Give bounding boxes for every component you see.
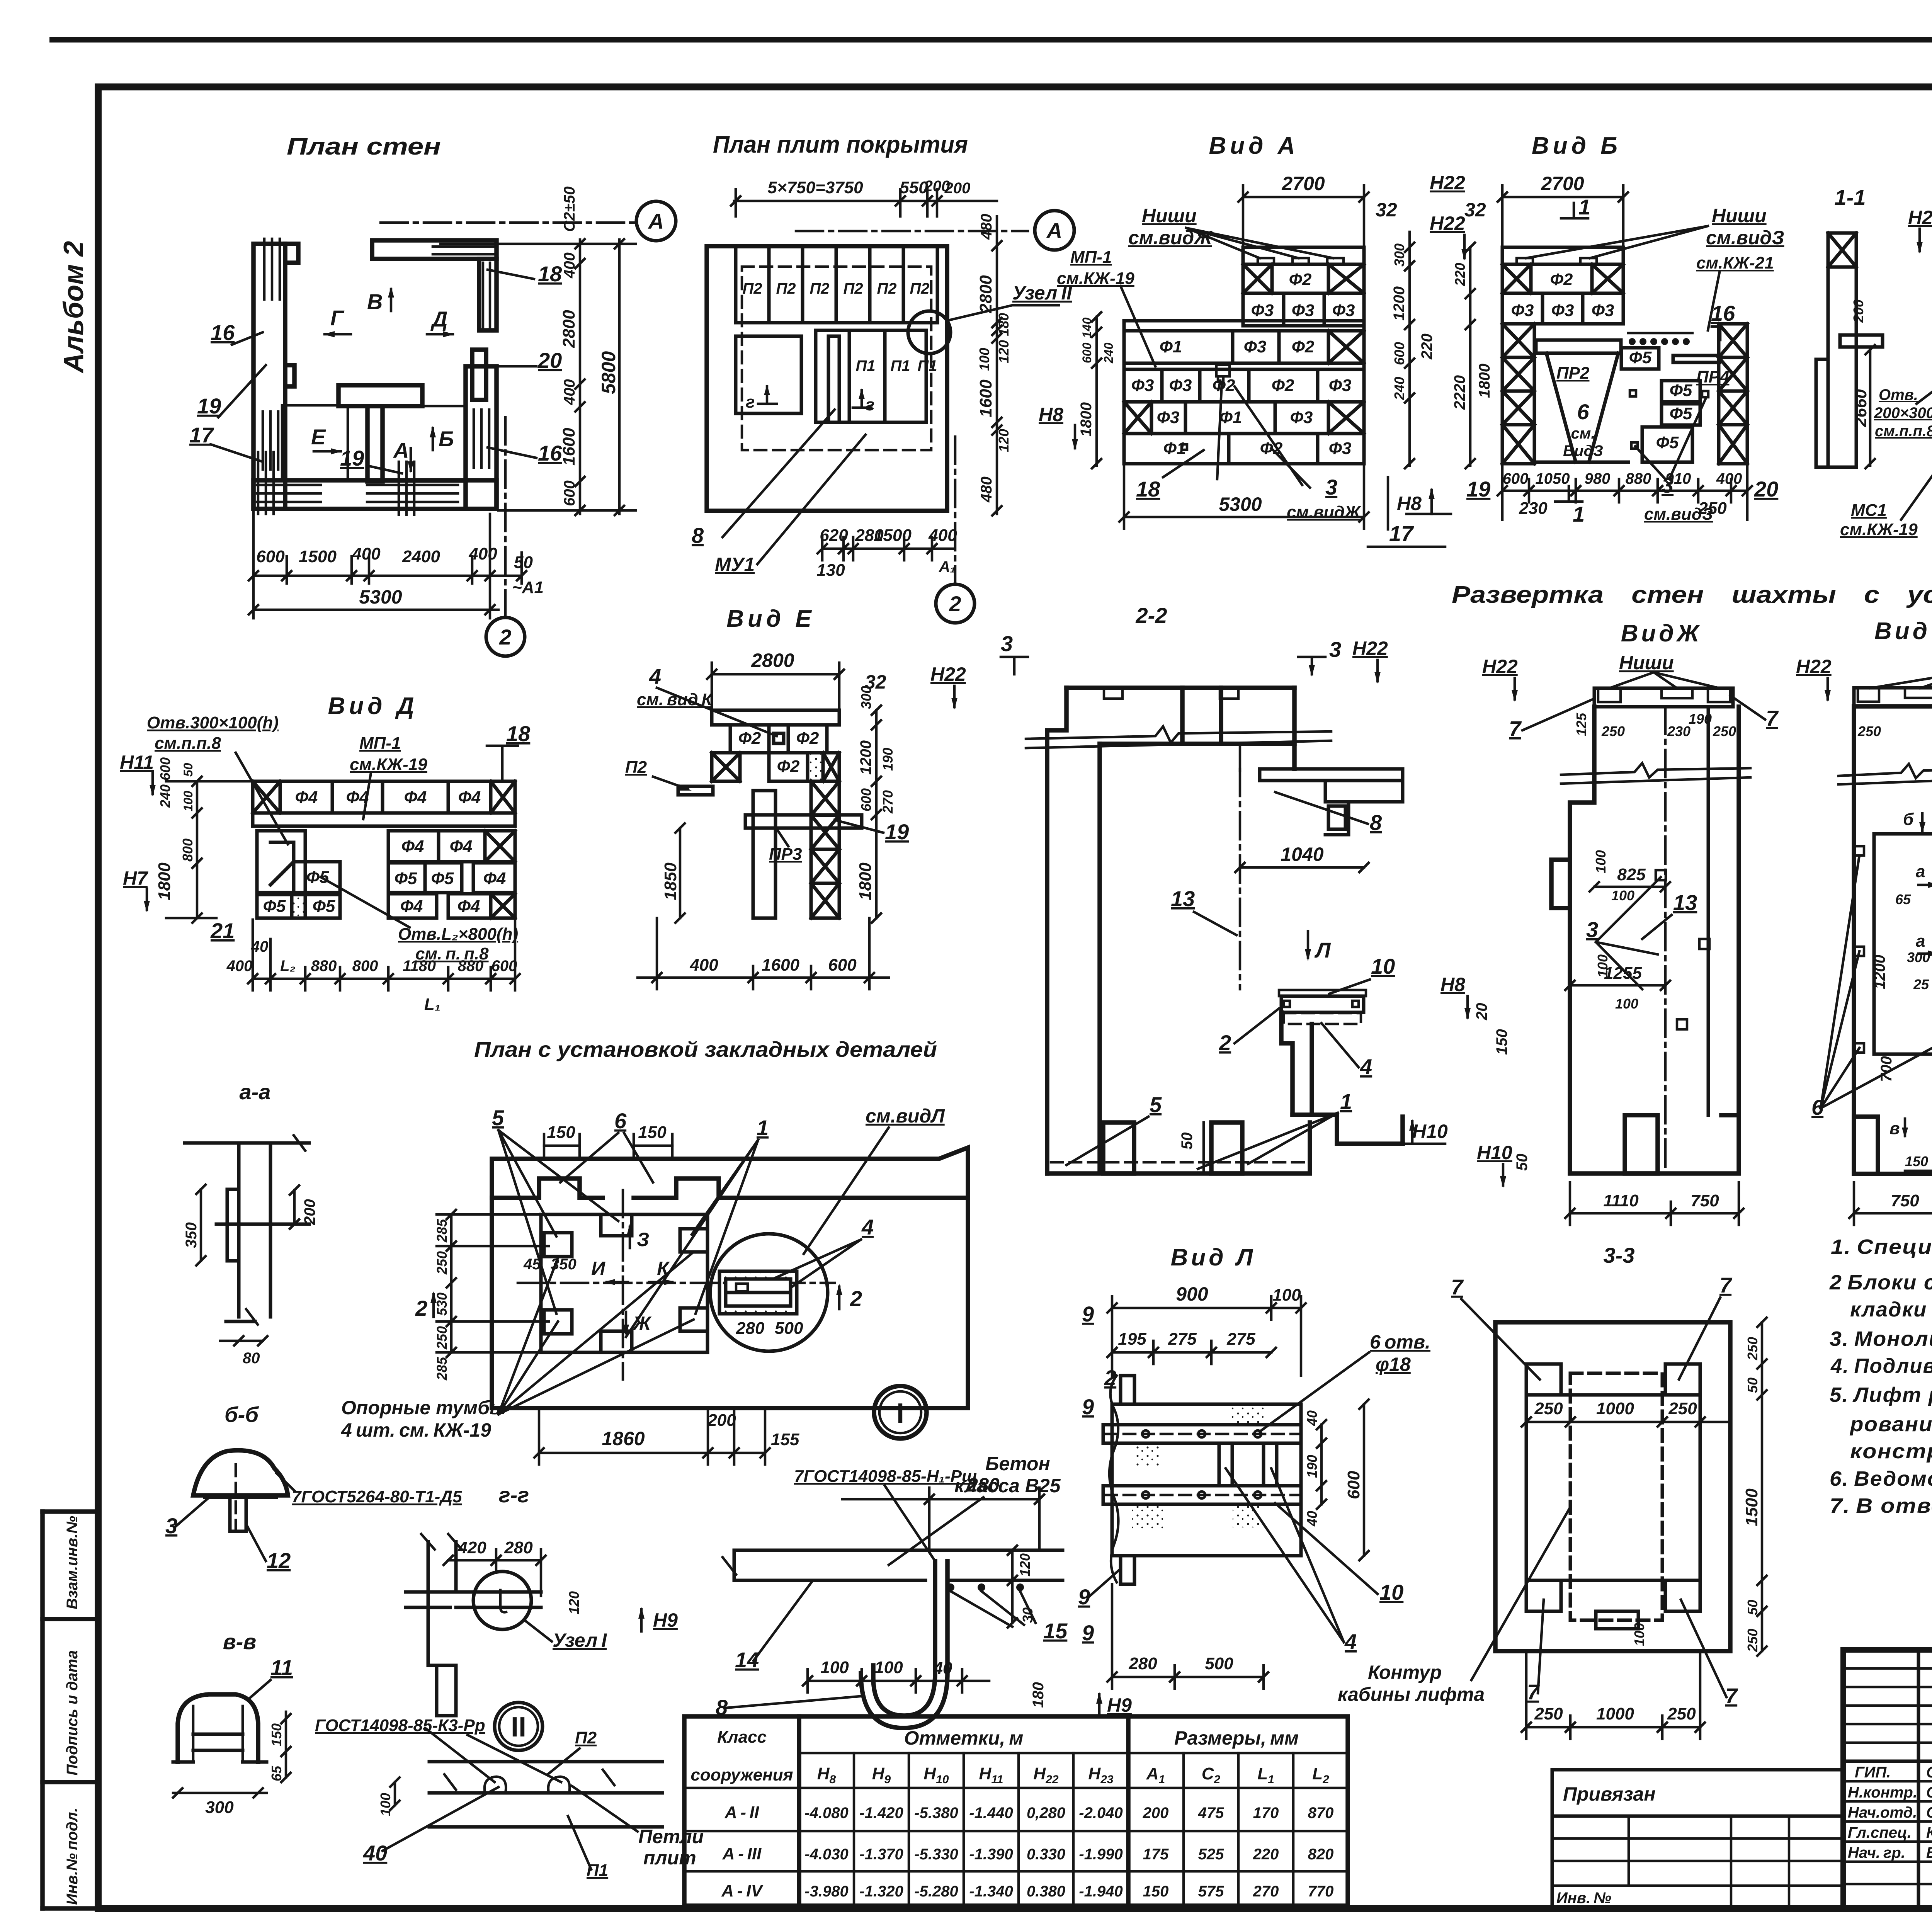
svg-text:50: 50 (1745, 1378, 1760, 1393)
svg-text:Васильева: Васильева (1926, 1844, 1932, 1861)
svg-text:1600: 1600 (560, 428, 578, 466)
bottom dims 250 1000 250 (1522, 1654, 1705, 1739)
svg-text:100: 100 (1272, 1286, 1301, 1304)
svg-text:г: г (746, 393, 755, 412)
wall hatch bundles (257, 239, 495, 515)
rebar dots and bottom bars (947, 1583, 1024, 1591)
svg-text:9: 9 (1082, 1621, 1094, 1645)
вид Д: lower right blocks (388, 831, 515, 918)
svg-text:4: 4 (1360, 1054, 1372, 1079)
svg-text:а: а (1916, 932, 1925, 951)
svg-text:3: 3 (1586, 917, 1598, 942)
svg-text:32: 32 (1376, 199, 1397, 221)
svg-text:200×300(h): 200×300(h) (1874, 405, 1932, 422)
svg-text:П2: П2 (742, 280, 762, 297)
svg-text:МУ1: МУ1 (715, 554, 755, 575)
svg-text:4: 4 (649, 664, 661, 689)
svg-text:см.видЖ: см.видЖ (1128, 227, 1213, 248)
svg-text:13: 13 (1673, 890, 1697, 915)
svg-text:7: 7 (1725, 1684, 1738, 1708)
svg-text:1000: 1000 (1596, 1399, 1634, 1418)
план плит: outer square (707, 246, 947, 511)
вид Б: lintel ПР2 and door funnel (1536, 340, 1621, 353)
svg-text:20: 20 (1754, 477, 1778, 501)
svg-text:125: 125 (1573, 713, 1589, 736)
svg-text:МП-1: МП-1 (359, 734, 401, 753)
svg-text:ГОСТ14098-85-К3-Рр: ГОСТ14098-85-К3-Рр (315, 1716, 485, 1735)
svg-text:П1: П1 (890, 357, 910, 374)
svg-text:100: 100 (1593, 850, 1609, 873)
svg-text:150: 150 (547, 1123, 575, 1142)
svg-text:170: 170 (1253, 1804, 1279, 1821)
план стен: top-right L wall (372, 240, 497, 259)
svg-text:Ф4: Ф4 (401, 837, 424, 856)
svg-text:Ф4: Ф4 (404, 788, 427, 807)
svg-text:1. Спецификацию см. на лист: 1. Спецификацию см. на листах КЖ-19, КЖ-… (1831, 1235, 1932, 1259)
svg-text:2 Блоки стен укладывать на: 2 Блоки стен укладывать на цементно-песч… (1829, 1271, 1932, 1294)
svg-text:г: г (866, 395, 874, 414)
svg-text:50: 50 (1179, 1133, 1196, 1150)
svg-text:а-а: а-а (240, 1080, 271, 1104)
svg-text:Ф5: Ф5 (313, 897, 335, 916)
svg-text:880: 880 (311, 957, 337, 975)
вид А right chain (1405, 232, 1414, 468)
svg-text:530: 530 (434, 1293, 450, 1316)
axis circle 2 bottom (954, 437, 957, 583)
svg-text:Ф3: Ф3 (1292, 301, 1315, 320)
svg-text:см.п.п.8: см.п.п.8 (155, 734, 221, 753)
svg-text:А: А (648, 209, 664, 233)
svg-text:А - III: А - III (722, 1844, 762, 1863)
svg-text:100: 100 (976, 348, 992, 371)
svg-text:Ф2: Ф2 (1272, 376, 1294, 395)
svg-text:7: 7 (1766, 706, 1779, 730)
svg-text:Вид А: Вид А (1209, 133, 1299, 159)
svg-text:Ф3: Ф3 (1251, 301, 1274, 320)
svg-text:-1.320: -1.320 (859, 1883, 903, 1900)
svg-text:Н8: Н8 (1440, 974, 1465, 995)
svg-text:200: 200 (707, 1411, 736, 1430)
svg-text:Ф2: Ф2 (796, 729, 819, 748)
план плит: room (736, 336, 801, 413)
svg-text:500: 500 (1205, 1654, 1233, 1673)
svg-text:40: 40 (1304, 1511, 1320, 1527)
svg-text:5800: 5800 (598, 351, 619, 394)
svg-text:15: 15 (1043, 1619, 1068, 1643)
svg-text:-4.030: -4.030 (804, 1846, 848, 1863)
svg-text:А: А (1046, 218, 1062, 243)
svg-text:19: 19 (1466, 477, 1490, 501)
svg-text:130: 130 (816, 561, 845, 580)
dims 420 280 (444, 1549, 546, 1596)
svg-text:Л: Л (1314, 938, 1331, 962)
band (734, 1550, 1063, 1580)
план стен: left wall (253, 244, 285, 509)
svg-text:Д: Д (430, 307, 447, 331)
svg-text:1110: 1110 (1603, 1191, 1639, 1210)
svg-text:800: 800 (352, 957, 378, 975)
svg-text:5. Лифт разработан в соответ: 5. Лифт разработан в соответствии с „ Ал… (1830, 1383, 1932, 1406)
svg-text:120: 120 (1017, 1553, 1033, 1577)
svg-text:6: 6 (614, 1109, 627, 1133)
svg-text:150: 150 (1905, 1153, 1928, 1169)
svg-text:Вид Б: Вид Б (1532, 133, 1621, 159)
svg-text:Развертка стен шахты с уст: Развертка стен шахты с установкой заклад… (1452, 582, 1932, 608)
узел II circle (495, 1702, 543, 1750)
svg-text:Ф4: Ф4 (458, 788, 481, 807)
svg-text:3: 3 (1001, 631, 1013, 656)
svg-text:155: 155 (771, 1430, 799, 1449)
svg-text:2-2: 2-2 (1136, 603, 1167, 628)
dashed inner square (cabin contour) (1570, 1373, 1662, 1620)
dims 250 1000 250 middle (1522, 1417, 1730, 1427)
svg-text:ВидЖ: ВидЖ (1621, 620, 1702, 647)
svg-text:Гл.спец.: Гл.спец. (1848, 1824, 1912, 1841)
top dimension 5x750=3750 550 200 200 (731, 189, 997, 216)
svg-text:Взам.инв.№: Взам.инв.№ (64, 1516, 81, 1609)
svg-text:2: 2 (415, 1296, 427, 1320)
svg-text:Н10: Н10 (1412, 1121, 1448, 1142)
svg-text:0.330: 0.330 (1027, 1846, 1065, 1863)
svg-text:16: 16 (1711, 301, 1735, 325)
svg-text:Ниши: Ниши (1712, 205, 1767, 226)
svg-text:750: 750 (1891, 1191, 1919, 1210)
svg-text:Нач. гр.: Нач. гр. (1848, 1844, 1905, 1861)
svg-text:190: 190 (1304, 1455, 1320, 1478)
svg-text:План плит покрытия: План плит покрытия (713, 131, 968, 158)
svg-text:~А1: ~А1 (512, 578, 544, 597)
план закл: outer boundary (492, 1148, 968, 1408)
svg-text:-1.390: -1.390 (969, 1846, 1013, 1863)
svg-text:Отв.L₂×800(h): Отв.L₂×800(h) (398, 925, 518, 944)
svg-text:Ф5: Ф5 (306, 868, 329, 887)
svg-text:1860: 1860 (602, 1428, 645, 1449)
svg-text:250: 250 (434, 1251, 450, 1275)
svg-text:20: 20 (537, 348, 562, 372)
svg-text:1: 1 (1340, 1089, 1352, 1114)
svg-text:-1.440: -1.440 (969, 1804, 1013, 1821)
svg-text:-1.940: -1.940 (1079, 1883, 1122, 1900)
svg-text:L₂: L₂ (280, 957, 296, 975)
svg-text:Н22: Н22 (1908, 207, 1932, 228)
svg-text:Отметки, м: Отметки, м (904, 1727, 1024, 1749)
svg-text:Ф3: Ф3 (1157, 408, 1180, 427)
svg-text:16: 16 (211, 320, 235, 345)
вид Ж: inner edge and break (1707, 707, 1710, 1115)
axis line and circle А (381, 221, 636, 224)
svg-text:525: 525 (1198, 1846, 1224, 1863)
МП-1 см.КЖ-19 label (1121, 286, 1155, 366)
svg-text:9: 9 (1082, 1395, 1094, 1419)
svg-text:Ф4: Ф4 (450, 837, 473, 856)
svg-text:А - IV: А - IV (721, 1881, 764, 1900)
план стен: T pier (338, 385, 422, 406)
svg-text:Н11: Н11 (120, 752, 154, 773)
вид А left chain (1092, 312, 1101, 468)
svg-text:плит: плит (643, 1847, 696, 1869)
svg-text:в: в (1889, 1119, 1900, 1138)
svg-text:600: 600 (828, 956, 857, 975)
svg-text:Н22: Н22 (1430, 213, 1465, 234)
svg-text:1040: 1040 (1281, 844, 1323, 865)
svg-text:З: З (637, 1229, 649, 1250)
svg-text:Ф1: Ф1 (1219, 408, 1242, 427)
svg-text:230: 230 (1667, 723, 1690, 739)
svg-text:А: А (393, 438, 409, 463)
svg-text:1000: 1000 (1596, 1704, 1634, 1723)
axis А circle top right (shared) (796, 230, 1028, 233)
svg-text:150: 150 (638, 1123, 667, 1142)
bottom dim (1849, 1182, 1932, 1225)
svg-text:Ф3: Ф3 (1244, 337, 1267, 356)
svg-text:Н8: Н8 (1397, 493, 1422, 514)
1-1: wall column (1816, 233, 1883, 467)
break lines (1838, 764, 1932, 778)
top dim 2700 (1238, 185, 1369, 247)
svg-text:120 180: 120 180 (996, 313, 1012, 363)
вид Д: top row (253, 781, 515, 813)
right chain (872, 706, 881, 923)
svg-text:Н7: Н7 (123, 867, 148, 889)
svg-text:400: 400 (226, 957, 253, 975)
svg-text:П2: П2 (575, 1728, 597, 1747)
svg-text:а: а (1916, 862, 1925, 881)
svg-text:Вид Л: Вид Л (1171, 1244, 1256, 1271)
svg-text:6. Ведомость и спецификацию: 6. Ведомость и спецификацию перемычек см… (1830, 1467, 1932, 1490)
svg-text:конструкций лифтов) ЛТ-6: конструкций лифтов) ЛТ-6 (1850, 1440, 1932, 1463)
svg-text:250: 250 (1668, 1399, 1697, 1418)
svg-text:2700: 2700 (1541, 173, 1584, 194)
2-2: upper right slab (1260, 769, 1403, 835)
svg-text:Н22: Н22 (1482, 656, 1518, 677)
sheet top rule (52, 37, 1932, 43)
svg-text:400: 400 (689, 956, 718, 975)
svg-text:150: 150 (269, 1723, 284, 1747)
1850 dim (675, 823, 685, 923)
svg-text:7ГОСТ14098-85-Н₁-Рш: 7ГОСТ14098-85-Н₁-Рш (794, 1467, 977, 1486)
svg-text:5: 5 (492, 1105, 504, 1130)
svg-text:820: 820 (1308, 1846, 1334, 1863)
svg-text:40: 40 (251, 938, 269, 955)
svg-text:600: 600 (1344, 1471, 1363, 1499)
svg-text:10: 10 (1379, 1580, 1403, 1604)
bottom dims 280 500 (1107, 1584, 1268, 1689)
svg-text:400: 400 (468, 544, 497, 563)
svg-text:-1.420: -1.420 (859, 1804, 903, 1821)
svg-text:300: 300 (205, 1798, 234, 1817)
svg-text:20: 20 (1473, 1003, 1490, 1021)
svg-text:100: 100 (1615, 996, 1638, 1012)
280 dim (842, 1488, 1044, 1550)
svg-text:П2: П2 (810, 280, 829, 297)
svg-text:220: 220 (1253, 1846, 1279, 1863)
МУ1 and 8 leaders (723, 410, 835, 537)
svg-text:2: 2 (1219, 1031, 1231, 1055)
вид Б: Ф5 blocks (1621, 348, 1659, 369)
svg-text:7: 7 (1509, 716, 1522, 741)
svg-text:см.: см. (1571, 425, 1595, 442)
svg-text:50: 50 (514, 553, 533, 572)
svg-text:400: 400 (1716, 470, 1742, 487)
вид З: main outline (1854, 706, 1932, 1174)
svg-text:ГИП.: ГИП. (1855, 1764, 1891, 1781)
svg-text:17: 17 (189, 423, 214, 447)
svg-text:600: 600 (1391, 342, 1407, 365)
2-2: bottom with feet (1047, 1122, 1310, 1173)
svg-text:Силяева: Силяева (1926, 1764, 1932, 1781)
svg-text:ВидЗ: ВидЗ (1563, 442, 1603, 459)
anchor squares (1855, 835, 1932, 1053)
svg-text:30: 30 (1020, 1607, 1036, 1623)
svg-text:120: 120 (566, 1591, 582, 1614)
svg-text:3. Монолитные участки стен: 3. Монолитные участки стен выполнять из … (1830, 1327, 1932, 1350)
svg-text:1200: 1200 (857, 740, 874, 775)
svg-text:П1: П1 (855, 357, 875, 374)
svg-text:Н9: Н9 (1107, 1694, 1132, 1716)
svg-text:1: 1 (757, 1116, 769, 1140)
svg-text:7ГОСТ5264-80-Т1-Д5: 7ГОСТ5264-80-Т1-Д5 (292, 1487, 462, 1506)
svg-text:-4.080: -4.080 (804, 1804, 848, 1821)
svg-text:250: 250 (1713, 723, 1736, 739)
вид Л: wavy outer boundary (1109, 1376, 1118, 1582)
svg-text:1: 1 (1573, 502, 1585, 526)
svg-text:50: 50 (181, 763, 195, 777)
svg-text:100: 100 (181, 791, 195, 811)
svg-text:250: 250 (434, 1326, 450, 1350)
roles (1848, 1764, 1932, 1861)
svg-text:см.видЗ: см.видЗ (1706, 227, 1784, 248)
svg-text:ПР2: ПР2 (1556, 364, 1590, 383)
svg-text:г-г: г-г (499, 1483, 529, 1507)
anchor squares (1630, 390, 1636, 396)
svg-text:Ф3: Ф3 (1592, 301, 1614, 320)
hook rebar (873, 1561, 935, 1716)
room Е (282, 405, 348, 480)
dims 195 275 275 (1107, 1341, 1276, 1364)
svg-text:480: 480 (978, 214, 995, 240)
svg-text:Ф4: Ф4 (457, 897, 480, 916)
вид Б: rebar dots (1629, 338, 1690, 345)
svg-text:Подпись и дата: Подпись и дата (64, 1650, 81, 1776)
stipple patches (1229, 1404, 1264, 1425)
svg-text:1800: 1800 (155, 862, 174, 900)
direction arrows В Г Д Е А Б (314, 289, 453, 471)
svg-text:МС1: МС1 (1851, 501, 1887, 520)
svg-text:240: 240 (1391, 377, 1407, 400)
svg-text:240 600: 240 600 (157, 757, 173, 808)
svg-text:А₁: А₁ (939, 558, 956, 575)
svg-text:1600: 1600 (762, 956, 799, 975)
svg-text:350: 350 (183, 1222, 200, 1248)
svg-text:Одиноков: Одиноков (1926, 1804, 1932, 1821)
svg-text:600: 600 (256, 547, 285, 566)
svg-text:8: 8 (692, 523, 704, 548)
svg-text:2220: 2220 (1451, 375, 1468, 410)
svg-text:Ниши: Ниши (1619, 652, 1674, 673)
svg-text:870: 870 (1308, 1804, 1334, 1821)
svg-text:-5.330: -5.330 (914, 1846, 958, 1863)
svg-text:280: 280 (736, 1319, 765, 1338)
svg-text:9: 9 (1082, 1302, 1094, 1326)
svg-text:240: 240 (1102, 342, 1116, 364)
left margin column (40, 1512, 45, 1908)
svg-text:65: 65 (269, 1765, 284, 1781)
svg-text:Инв.№ подл.: Инв.№ подл. (64, 1808, 81, 1905)
вид А: upper rows (1243, 264, 1364, 326)
svg-text:1050: 1050 (1536, 470, 1570, 487)
dims middle (1590, 882, 1670, 891)
svg-text:100: 100 (378, 1793, 393, 1816)
svg-text:кладки с внутренней стороны р: кладки с внутренней стороны расшиваются,… (1850, 1298, 1932, 1321)
svg-text:200: 200 (944, 180, 971, 197)
svg-text:270: 270 (880, 790, 896, 814)
svg-text:Ф5: Ф5 (1656, 433, 1679, 452)
right X column (811, 781, 839, 918)
svg-text:Ф5: Ф5 (1670, 404, 1692, 423)
svg-text:100: 100 (1595, 954, 1611, 978)
вид Ж: niche band (1594, 688, 1733, 707)
svg-text:см.видЗ: см.видЗ (1644, 505, 1713, 524)
svg-text:П2: П2 (776, 280, 796, 297)
г-г drawing: corner with узел I circle (406, 1542, 541, 1716)
right vertical chain (992, 216, 1002, 515)
2-2: lower right profile (1281, 1012, 1403, 1144)
svg-text:250: 250 (1534, 1704, 1563, 1723)
svg-text:Н8: Н8 (1039, 404, 1063, 425)
дash-dot centerlines (518, 1282, 835, 1284)
svg-text:4 шт. см. КЖ-19: 4 шт. см. КЖ-19 (341, 1419, 491, 1441)
svg-text:11: 11 (270, 1655, 293, 1680)
svg-text:Вид З: Вид З (1874, 618, 1932, 645)
svg-text:120: 120 (996, 429, 1012, 452)
svg-text:600: 600 (858, 788, 874, 811)
svg-text:Н22: Н22 (1796, 656, 1832, 677)
5300 bottom dim (1119, 466, 1369, 529)
svg-text:250: 250 (1667, 1704, 1696, 1723)
svg-text:Ф5: Ф5 (395, 869, 417, 888)
svg-text:2700: 2700 (1281, 173, 1325, 194)
svg-text:600: 600 (1080, 342, 1094, 363)
circled detail (710, 1234, 828, 1351)
вид Б: upper rows (1502, 264, 1623, 324)
left chain (166, 777, 255, 923)
svg-text:Ф3: Ф3 (1329, 376, 1352, 395)
svg-text:600: 600 (1503, 470, 1529, 487)
svg-text:825: 825 (1617, 865, 1646, 884)
anchor squares (1656, 870, 1666, 880)
svg-text:Узел I: Узел I (553, 1629, 607, 1651)
2-2: top block (1047, 688, 1294, 1173)
svg-text:Класс: Класс (717, 1728, 767, 1747)
svg-text:6: 6 (1577, 400, 1589, 424)
left chain 285 250 530 250 285 (437, 1210, 549, 1357)
svg-text:200: 200 (301, 1199, 318, 1225)
svg-text:П2: П2 (877, 280, 896, 297)
svg-text:40: 40 (363, 1841, 387, 1865)
svg-text:Ф2: Ф2 (738, 729, 761, 748)
svg-text:см.п.п.8: см.п.п.8 (1875, 423, 1932, 440)
svg-text:1500: 1500 (1742, 1488, 1761, 1526)
svg-text:25: 25 (1913, 976, 1929, 992)
вид Е: rows (712, 725, 839, 781)
svg-text:770: 770 (1308, 1883, 1334, 1900)
план плит: П2 slab field (736, 246, 937, 323)
svg-text:1500: 1500 (874, 526, 912, 545)
svg-text:40: 40 (933, 1659, 952, 1678)
right vertical dimension chains (440, 239, 636, 515)
svg-text:б-б: б-б (224, 1402, 259, 1427)
вид Л: main rect (1112, 1404, 1301, 1556)
